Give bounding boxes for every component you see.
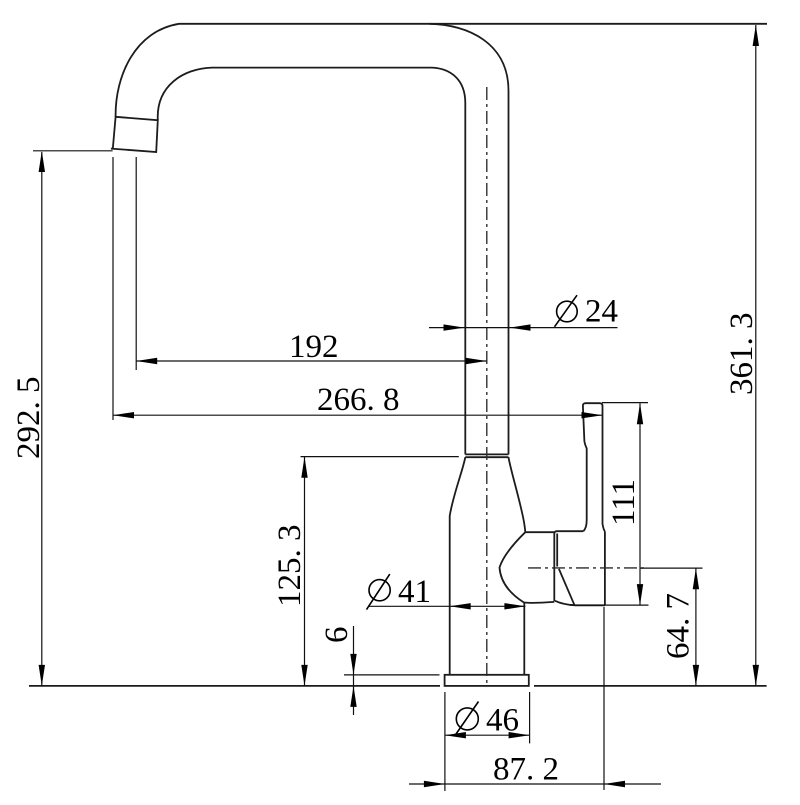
arrow dia24 right pointing left [510,324,531,330]
dimension 266.8 extension line [112,157,114,420]
arrow 266.8 left [113,412,134,418]
pipe-body joint ring [465,454,508,457]
arrow 64.7 bottom [693,665,699,686]
svg-text:41: 41 [398,574,431,610]
arrow dia41 left [450,603,471,609]
svg-text:292. 5: 292. 5 [11,377,47,460]
dimension dia41 line [368,605,525,607]
dimension dia24 leader line [429,327,618,329]
valve cap [554,531,583,605]
dimension 64.7 line [695,568,697,686]
dimension 125.3 line [304,457,306,686]
arrow 192 left [136,358,157,364]
svg-text:6: 6 [319,627,355,644]
dimension 292.5 extension line [33,150,113,152]
dimension dia46 right extension line [529,692,531,743]
dimension 266.8 line [113,414,603,416]
conical body [450,457,526,675]
arrow 125.3 bottom [301,665,307,686]
dimension 64.7 extension line [640,567,703,569]
dimension 125.3 extension line [301,456,459,458]
arrow 192 right [466,358,487,364]
arrow 292.5 top [39,151,45,172]
vertical pipe body [465,91,508,454]
arrow dia41 right [504,603,525,609]
arrow 64.7 top [693,568,699,589]
diameter symbol for 41 [367,574,391,610]
aerator nozzle [111,117,158,152]
diameter symbol for 24 [555,295,578,327]
base flange [445,675,529,686]
dimension dia46 line [445,734,530,736]
diameter symbol for 46 [455,702,479,736]
arrow 361.3 top [753,25,759,46]
dimension 111 line [639,403,641,605]
arrow 361.3 bottom [753,665,759,686]
dimension 192 extension line [135,157,137,370]
dimension 6 line [353,626,355,715]
dimension 6 extension line [344,674,440,676]
arrow 266.8 right [582,412,603,418]
dimension dia46 left extension line [444,692,446,791]
handle bell [575,532,605,606]
arrow 111 bottom [637,584,643,605]
counter baseline [29,685,767,687]
arrow dia24 left pointing right [444,324,465,330]
arrow dia46 right [509,732,530,738]
spout curved pipe outline [116,24,767,120]
svg-text:87. 2: 87. 2 [493,752,559,788]
svg-text:192: 192 [289,329,339,365]
arrow 111 top [637,403,643,424]
vertical centerline [486,87,488,686]
arrow 87.2 right pointing left [604,781,625,787]
arrow 292.5 bottom [39,665,45,686]
svg-text:125. 3: 125. 3 [272,525,308,608]
arrow 6 top pointing down [350,654,356,675]
arrow 125.3 top [301,457,307,478]
svg-text:266. 8: 266. 8 [317,382,400,418]
svg-text:64. 7: 64. 7 [661,593,697,659]
handle lever [583,403,605,531]
valve housing [500,532,555,603]
svg-text:111: 111 [606,479,642,526]
svg-text:46: 46 [486,703,519,739]
arrow dia46 left [445,732,466,738]
arrow 87.2 left pointing right [424,781,445,787]
valve centerline [528,567,648,569]
svg-text:361. 3: 361. 3 [724,313,760,396]
dimension 192 line [136,360,486,362]
dimension 87.2 right extension line [603,607,605,790]
dimension 111 bottom extension line [570,604,649,606]
arrow 6 bottom pointing up [350,686,356,707]
dimension 361.3 line [755,25,757,686]
svg-text:24: 24 [585,294,618,330]
dimension 292.5 line [41,152,43,686]
dimension 111 top extension line [602,402,648,404]
dimension 87.2 line [409,783,661,785]
